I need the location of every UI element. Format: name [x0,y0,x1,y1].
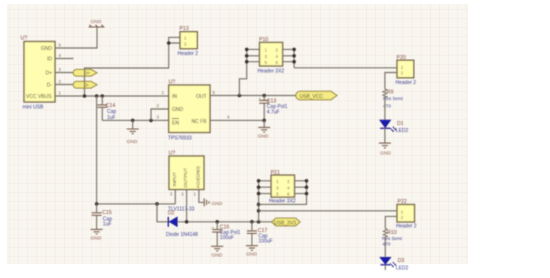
junction P21 left pins [257,179,261,213]
svg-text:Header 3X2: Header 3X2 [258,69,285,75]
junction EN-line gnd tap [131,119,135,123]
resistor R9 [383,89,403,109]
junction P21 right pins [305,179,309,195]
svg-text:D+: D+ [45,71,52,77]
wire P21 right stubs and riser [259,181,307,205]
header P10 [258,37,285,75]
wire P10 to P20 pin1 [294,67,397,69]
wire lower input rail [97,203,176,205]
wire output rail [177,221,272,223]
svg-text:GND: GND [127,139,138,145]
svg-text:U?: U? [169,80,176,86]
wire VBUS rail USB pin1 to regulator IN [55,95,169,97]
wire LED D3 stub [384,265,386,270]
svg-text:Header 2: Header 2 [178,51,199,57]
svg-text:TPS76933: TPS76933 [168,135,192,141]
ground under C13 [258,120,271,139]
LED D1 [380,120,409,134]
svg-text:GND: GND [212,253,223,259]
wire VBUS down to lower input rail [96,96,98,204]
regulator U? TLV1117 [168,151,204,213]
ground at ADJ (rotated) [204,198,223,206]
wire LED D1 to ground [384,128,386,142]
svg-text:U?: U? [21,36,28,42]
ground under C15 [91,229,103,241]
svg-text:P10: P10 [259,37,268,43]
junction input rail at C15 [95,202,99,206]
svg-text:D1: D1 [397,121,404,127]
header P21 [269,170,296,205]
svg-text:USB_3V3: USB_3V3 [274,220,296,226]
capacitor C13 [259,96,288,121]
svg-text:D+: D+ [84,71,90,76]
wire P20 pin2 down to R9 [385,73,397,90]
svg-text:Header 3X2: Header 3X2 [269,199,296,205]
wire P10 drop [239,49,246,95]
capacitor C14 [97,96,116,121]
svg-text:GND: GND [91,19,102,25]
svg-text:GND: GND [380,150,391,156]
svg-text:LED2: LED2 [396,265,409,271]
wire VBUS riser to P13 [85,37,181,96]
svg-text:C15: C15 [102,210,112,216]
junction VBUS riser [83,94,87,98]
ground under EN line [127,120,139,145]
junction C13 tap [262,94,266,98]
svg-text:Diode 1N4148: Diode 1N4148 [166,232,198,238]
power port USB_3V3 on output rail [272,218,300,226]
wire TLV output pin down [186,190,188,222]
svg-text:P22: P22 [398,199,407,205]
svg-text:Header 2: Header 2 [396,80,417,86]
ground GND (top, power bar style) [89,19,105,27]
capacitor C16 [212,222,241,246]
svg-text:OUTPUT: OUTPUT [183,168,189,188]
header P13 [178,26,199,57]
port D+ [73,69,97,76]
svg-text:R10: R10 [387,230,397,236]
junction P10 right pins [292,48,296,64]
wire P22 pin2 down to R10 [385,216,397,228]
junction EN-line to reg GND pin [149,119,153,123]
capacitor C17 [247,222,273,246]
wire diode branch down [157,204,168,222]
svg-text:1uF: 1uF [103,222,112,228]
junction output pin on rail [185,220,189,224]
svg-text:ID: ID [47,57,52,63]
wire USB GND pin to top ground [55,28,97,49]
svg-text:LED2: LED2 [396,128,409,134]
svg-text:100uF: 100uF [220,235,234,241]
junction C14 tap [101,94,105,98]
wire P10 left stubs [247,49,260,61]
diode D2 1N4148 [166,211,198,238]
svg-text:+: + [259,97,262,102]
junction P13 pin2 [167,41,171,45]
power port USB_VCC on OUT line [296,91,337,100]
svg-text:100uF: 100uF [258,239,272,245]
wire EN line C14 to regulator EN [102,119,168,121]
ground under D1 [379,143,391,156]
port D- [73,81,97,88]
wire P21 left stubs and riser [259,181,272,222]
svg-text:4.7uF: 4.7uF [267,110,280,116]
LED D3 [380,257,409,271]
svg-text:USB_VCC: USB_VCC [300,94,324,100]
svg-text:IN: IN [172,94,177,100]
ground under C16 [211,246,223,258]
svg-text:U?: U? [169,151,176,157]
wire USB ID pin stub [55,58,74,60]
svg-text:GND: GND [246,252,257,258]
svg-text:P13: P13 [180,26,189,32]
svg-text:Res Semi: Res Semi [383,96,403,101]
wire regulator OUT line [210,95,297,97]
svg-text:470: 470 [382,241,390,247]
wire NC FB to C13 ground node [210,119,264,121]
usb connector U? (mini USB) [21,36,62,111]
junction P21 drop on rail [257,220,261,224]
junction C17 tap [250,220,254,224]
svg-text:VCC VBUS: VCC VBUS [26,94,52,100]
wire R10 to LED D3 [384,237,386,257]
header P22 [396,199,417,229]
wire P21 to P22 pin1 [259,210,397,212]
header P20 [396,55,417,86]
svg-text:D2: D2 [168,211,175,217]
wire USB D- pin [55,84,75,86]
junction P10 left pins [245,48,249,64]
svg-text:INPUT: INPUT [172,172,178,186]
resistor R10 [382,229,402,248]
svg-text:Header 2: Header 2 [396,223,417,229]
svg-text:GND: GND [258,133,269,139]
svg-text:ADJ(GND): ADJ(GND) [196,166,201,188]
regulator U? TPS76933 [157,80,231,142]
wire P10 right stubs and riser [283,49,295,67]
svg-text:GND: GND [91,236,102,242]
capacitor C15 [92,204,113,229]
wire TLV input pin down [174,190,176,204]
svg-text:+: + [212,225,215,230]
ground under C17 [246,246,258,258]
junction long drop from VBUS [95,94,99,98]
svg-text:EN: EN [172,121,179,127]
junction C13 ground node [262,119,266,123]
svg-text:NC FB: NC FB [192,119,208,125]
svg-text:OUT: OUT [196,94,207,100]
svg-text:P21: P21 [271,170,280,176]
svg-text:P20: P20 [397,55,406,61]
svg-text:470: 470 [383,103,391,109]
junction input rail diode branch [155,202,159,206]
svg-text:D3: D3 [398,258,405,264]
wire R9 to LED D1 [384,98,386,121]
junction P10 drop on OUT line [238,94,242,98]
wire USB D+ pin [55,72,75,74]
svg-text:GND: GND [212,201,223,207]
wire TLV adj pin to ground [199,190,204,203]
svg-text:mini USB: mini USB [23,105,45,111]
svg-text:GND: GND [41,46,53,52]
junction C16 tap [215,220,219,224]
svg-text:GND: GND [172,107,184,113]
svg-text:R9: R9 [387,90,394,96]
wire to regulator GND pin [151,109,169,120]
svg-text:D-: D- [47,83,53,89]
